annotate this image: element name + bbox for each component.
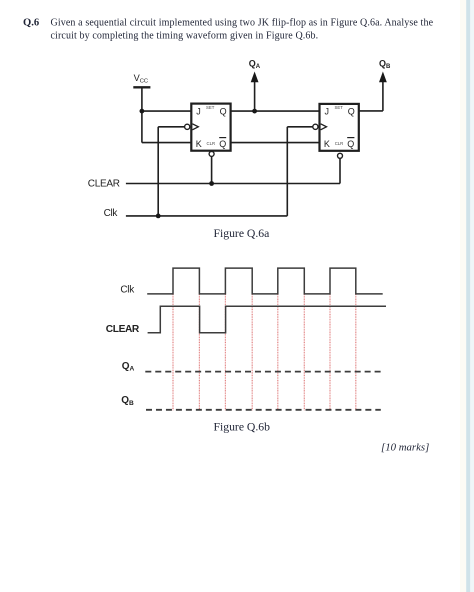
- svg-text:K: K: [196, 139, 202, 149]
- svg-text:J: J: [325, 106, 330, 116]
- wire Vcc vertical down to K level: [141, 87, 143, 142]
- U2 clock triangle: [321, 124, 327, 130]
- svg-text:CLR: CLR: [335, 141, 344, 146]
- wire FF2 Q output: [359, 110, 383, 112]
- QB arrowhead: [379, 72, 387, 83]
- QA arrowhead: [251, 72, 259, 83]
- svg-text:circuit by completing the timi: circuit by completing the timing wavefor…: [51, 31, 319, 42]
- svg-text:Clk: Clk: [104, 208, 119, 219]
- wire CLEAR line: [126, 183, 340, 185]
- edge marker t6: [303, 294, 305, 410]
- svg-text:Q.6: Q.6: [23, 18, 39, 29]
- wire QA net: FF1 Q to FF2 J: [231, 110, 320, 112]
- svg-text:CLEAR: CLEAR: [106, 324, 140, 335]
- node FF1 clock / Clk line junction: [156, 214, 161, 219]
- wire QB arrow stem: [382, 80, 384, 111]
- svg-text:Figure Q.6b: Figure Q.6b: [214, 420, 271, 433]
- edge marker t5: [277, 294, 279, 410]
- U2 CLR bubble: [338, 153, 343, 158]
- scan edge cream strip: [460, 0, 467, 592]
- svg-text:Q: Q: [220, 107, 227, 117]
- node QA junction: [252, 109, 257, 114]
- timing: red marker lines at clock edges: [173, 294, 356, 410]
- edge marker t7: [329, 294, 331, 410]
- wire FF2 CLR vertical: [339, 158, 341, 183]
- flip-flop U1 box: [191, 104, 230, 151]
- svg-text:Q: Q: [347, 139, 354, 149]
- edge marker t4: [251, 294, 253, 410]
- U1 clock bubble: [185, 124, 190, 129]
- svg-text:CLEAR: CLEAR: [88, 178, 120, 189]
- wire FF1 clock horizontal: [158, 126, 184, 128]
- wire QA arrow stem: [254, 81, 256, 112]
- edge marker t3: [224, 294, 226, 410]
- node Vcc-J junction: [140, 109, 145, 114]
- U1 Qbar overline: [219, 137, 226, 139]
- edge marker t1: [172, 294, 174, 410]
- svg-text:Given a sequential circuit imp: Given a sequential circuit implemented u…: [51, 18, 434, 29]
- wire FF1 Qbar to FF2 K: [231, 142, 320, 144]
- waveform QB (blank, dashed): [146, 409, 381, 411]
- svg-text:K: K: [324, 139, 330, 149]
- waveform Clk: [147, 268, 383, 294]
- U2 Qbar overline: [347, 137, 354, 139]
- wire FF1 clock vertical: [157, 127, 159, 216]
- U2 clock bubble: [313, 124, 318, 129]
- edge marker t2: [198, 294, 200, 410]
- svg-text:CLR: CLR: [207, 141, 216, 146]
- svg-text:J: J: [196, 107, 201, 117]
- flip-flop U2 box: [320, 104, 359, 151]
- scan edge blue strip: [466, 0, 470, 592]
- U1 CLR bubble: [209, 151, 214, 156]
- svg-text:Figure Q.6a: Figure Q.6a: [214, 227, 271, 240]
- wire FF2 clock horizontal: [287, 126, 313, 128]
- svg-text:Q: Q: [219, 139, 226, 149]
- svg-text:Clk: Clk: [120, 284, 135, 295]
- waveform CLEAR: [148, 306, 386, 333]
- wire FF2 clock vertical: [286, 127, 288, 216]
- wire K input FF1: [142, 142, 191, 144]
- wire Clk line: [126, 215, 287, 217]
- svg-text:Q: Q: [348, 106, 355, 116]
- node FF1 CLR / CLEAR line junction: [209, 181, 214, 186]
- svg-text:SET: SET: [206, 105, 215, 110]
- U1 clock triangle: [192, 124, 198, 130]
- wire J input FF1: [142, 110, 191, 112]
- waveform QA (blank, dashed): [145, 371, 380, 373]
- wire FF1 CLR vertical: [211, 157, 213, 184]
- svg-text:SET: SET: [335, 105, 344, 110]
- edge marker t8: [355, 294, 357, 410]
- svg-text:[10 marks]: [10 marks]: [381, 441, 429, 453]
- Vcc supply bar: [133, 86, 150, 88]
